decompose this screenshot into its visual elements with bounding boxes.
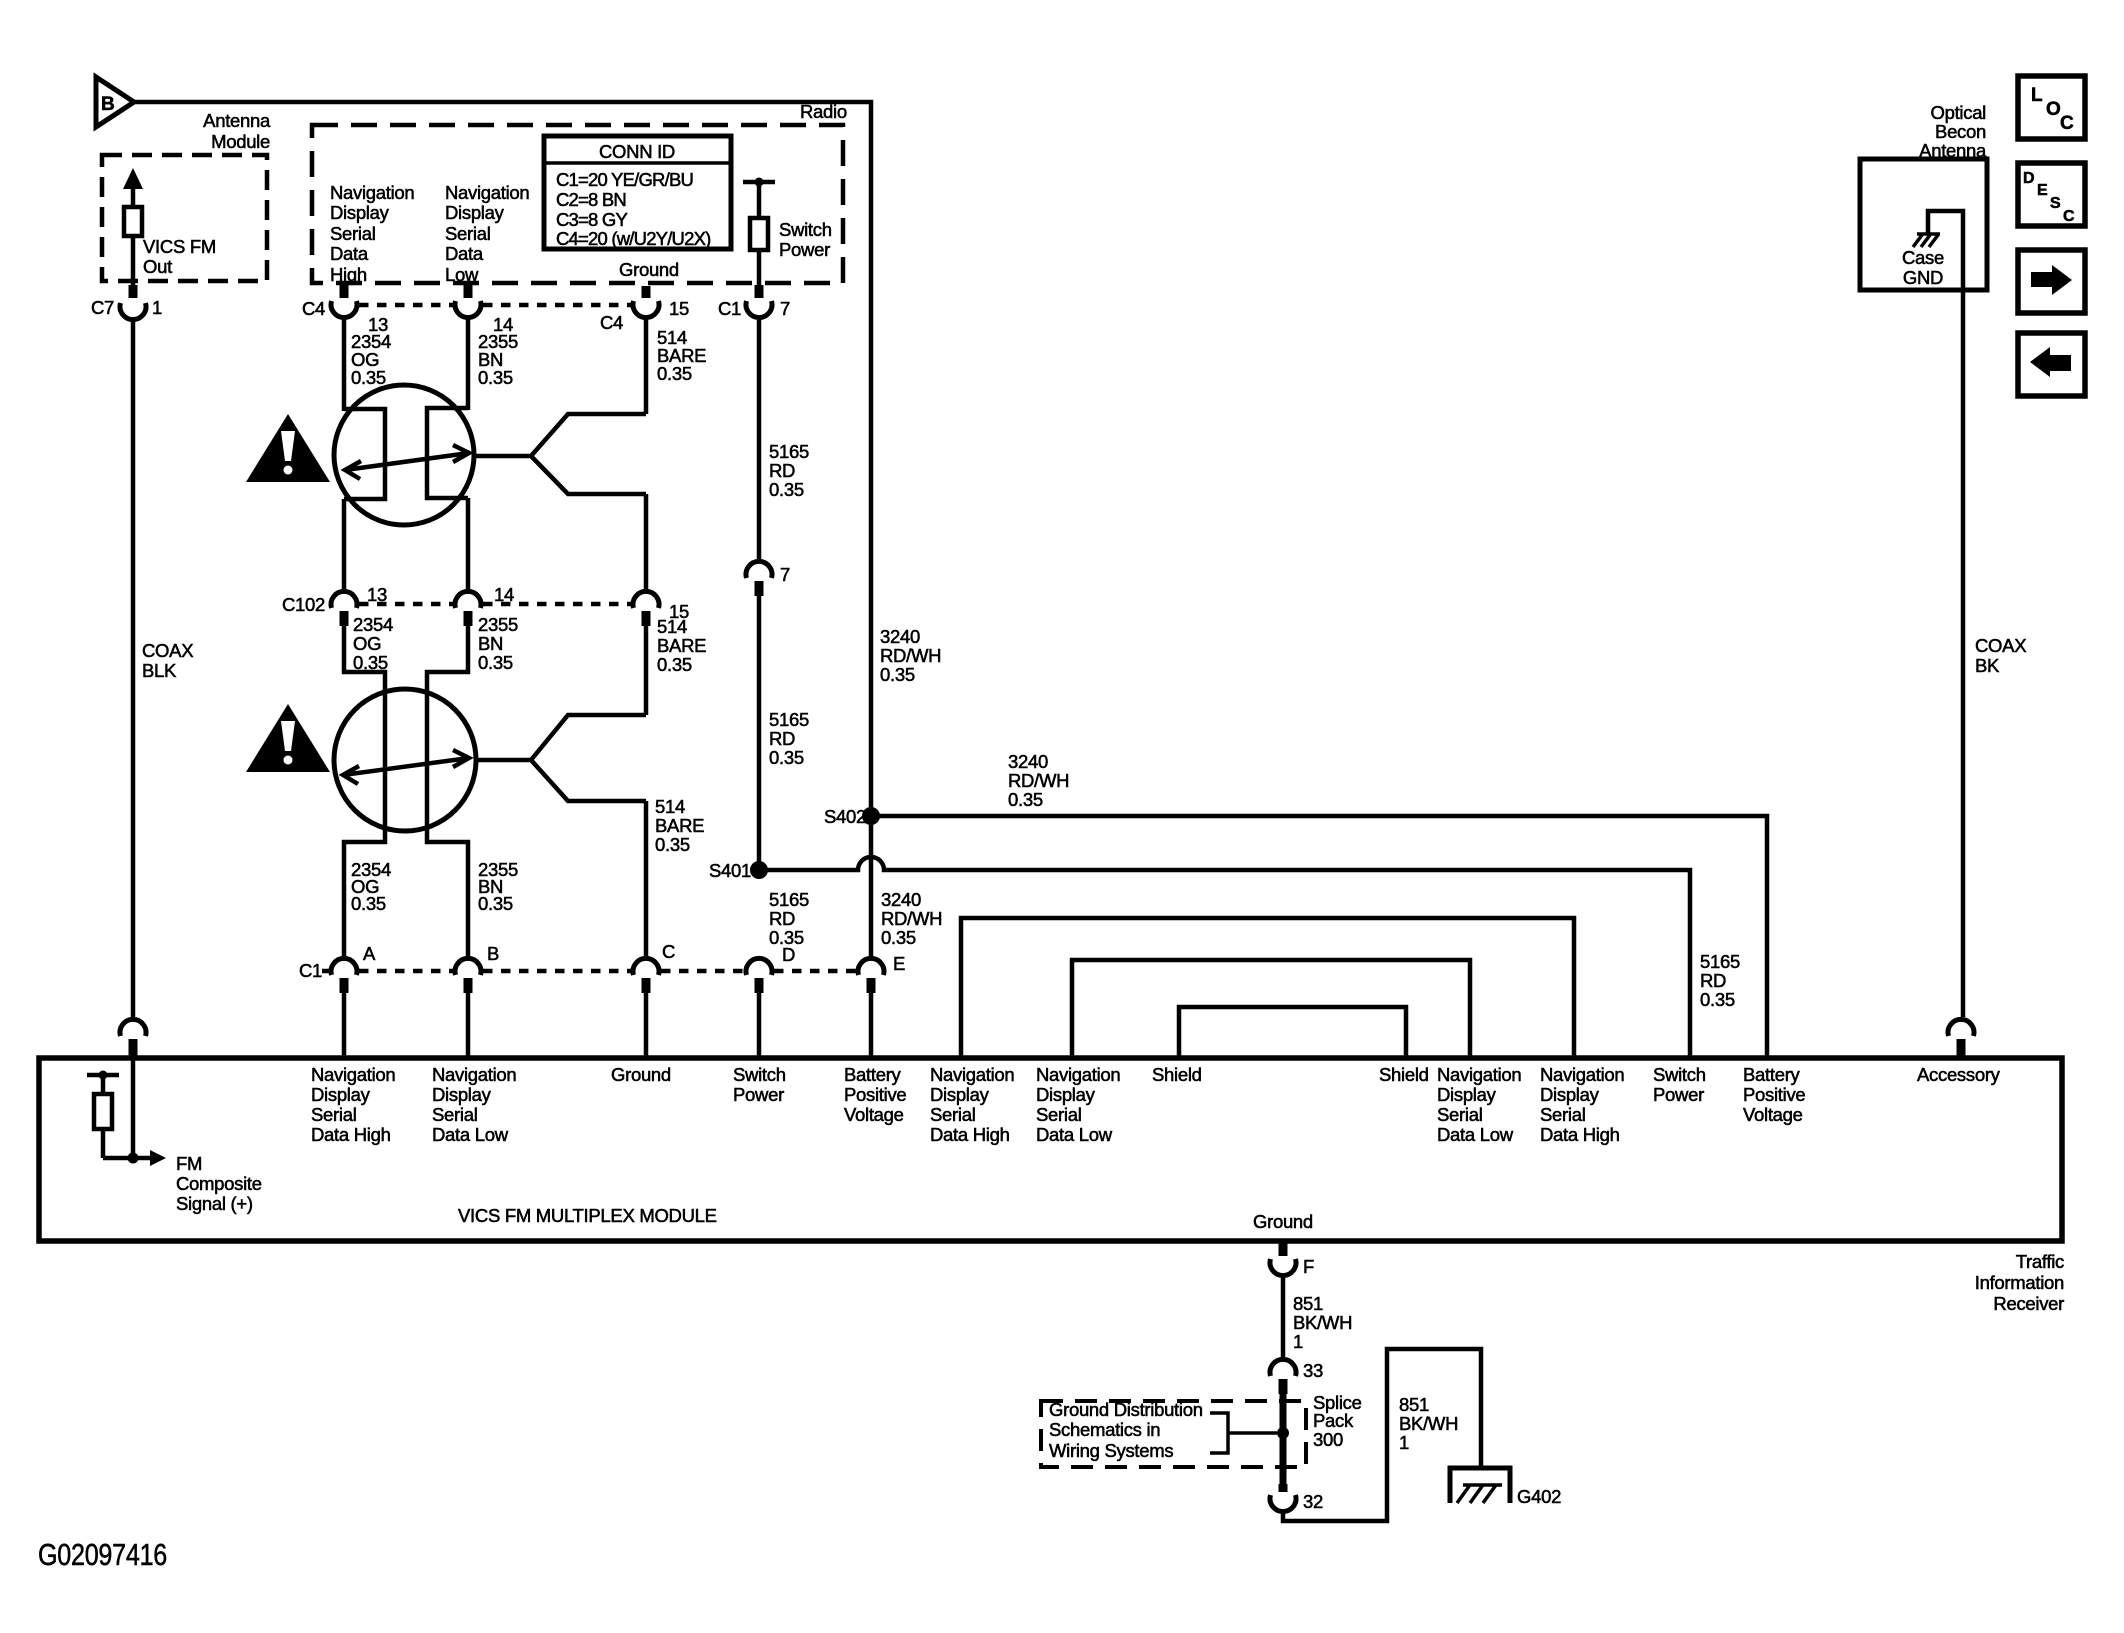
connector C1 pin C (633, 941, 675, 993)
resistor: VICS FM Out (124, 207, 142, 236)
wire: FM composite signal (103, 1129, 150, 1158)
svg-text:Low: Low (445, 264, 479, 285)
svg-text:Case: Case (1902, 247, 1944, 268)
svg-text:Wiring Systems: Wiring Systems (1049, 1440, 1173, 1461)
svg-text:Data Low: Data Low (1036, 1124, 1113, 1145)
svg-text:Data High: Data High (311, 1124, 391, 1145)
label 2354 OG 0.35 (radio side) (351, 331, 391, 388)
twisted pair 1 twist arrow (345, 445, 469, 479)
label 851 BK/WH 1 (lower) (1399, 1394, 1458, 1453)
svg-text:C1=20 YE/GR/BU: C1=20 YE/GR/BU (556, 169, 693, 190)
label module pin Shield (right) (1379, 1064, 1429, 1085)
button arrow left (2018, 333, 2085, 396)
svg-text:Display: Display (330, 202, 390, 223)
svg-text:F: F (1303, 1256, 1314, 1277)
svg-text:32: 32 (1303, 1491, 1323, 1512)
svg-text:FM: FM (176, 1153, 202, 1174)
svg-text:CONN ID: CONN ID (599, 141, 675, 162)
svg-text:1: 1 (1293, 1331, 1303, 1352)
label module pin Navigation Display Serial Data Low (mid) (1036, 1064, 1120, 1145)
svg-text:Traffic: Traffic (2016, 1251, 2064, 1272)
wire: 5165 from S401 to right switch pin (hops battery wire) (759, 857, 1690, 1058)
label G402 (1517, 1486, 1561, 1507)
wire: 514 C102 to fork 2 (644, 626, 649, 715)
svg-text:C2=8 BN: C2=8 BN (556, 189, 626, 210)
svg-text:S402: S402 (824, 806, 866, 827)
in-line connector 7 (746, 561, 790, 596)
bracket: ground distribution reference (1210, 1413, 1277, 1453)
label Case GND (1902, 247, 1944, 288)
svg-text:Data Low: Data Low (432, 1124, 509, 1145)
svg-text:5165: 5165 (769, 889, 809, 910)
svg-text:Becon: Becon (1935, 121, 1986, 142)
svg-text:3240: 3240 (1008, 751, 1048, 772)
svg-text:Positive: Positive (1743, 1084, 1805, 1105)
svg-text:Module: Module (211, 131, 270, 152)
svg-text:Navigation: Navigation (432, 1064, 516, 1085)
wire: 2355 twisted pair 1 to C102 (466, 498, 471, 591)
svg-text:0.35: 0.35 (881, 927, 916, 948)
label 2355 BN 0.35 (radio side) (478, 331, 518, 388)
svg-text:Serial: Serial (311, 1104, 357, 1125)
svg-text:0.35: 0.35 (657, 363, 692, 384)
svg-text:O: O (2046, 99, 2060, 120)
label module pin Shield (left) (1152, 1064, 1202, 1085)
svg-text:3240: 3240 (880, 626, 920, 647)
resistor: switch power (750, 218, 768, 250)
svg-text:Optical: Optical (1931, 102, 1986, 123)
connector row dashes C4 (359, 303, 631, 308)
svg-text:Battery: Battery (1743, 1064, 1801, 1085)
svg-text:E: E (2037, 182, 2048, 199)
svg-text:Switch: Switch (733, 1064, 786, 1085)
svg-text:RD: RD (769, 460, 795, 481)
wire: switch power feed (757, 182, 762, 218)
twisted pair 1 right loop (427, 408, 468, 498)
wire: 5165 inline connector to S401 (757, 596, 762, 870)
FM composite arrow (150, 1150, 166, 1166)
label Navigation Display Serial Data Low (radio) (445, 182, 529, 285)
splice S401 (709, 860, 768, 881)
VICS FM MULTIPLEX MODULE box (39, 1058, 2062, 1241)
svg-text:RD: RD (1700, 970, 1726, 991)
Radio dashed box (312, 125, 843, 283)
svg-text:Navigation: Navigation (1540, 1064, 1624, 1085)
connector B (circuit feed arrow) (96, 77, 134, 127)
button LOC (2018, 76, 2085, 139)
svg-text:5165: 5165 (769, 441, 809, 462)
svg-text:Schematics in: Schematics in (1049, 1419, 1160, 1440)
svg-text:C: C (662, 941, 675, 962)
svg-text:Voltage: Voltage (1743, 1104, 1803, 1125)
Ground Distribution dashed box (1041, 1401, 1306, 1467)
svg-text:0.35: 0.35 (880, 664, 915, 685)
label module pin Battery Positive Voltage (right) (1743, 1064, 1805, 1125)
wire: 514 from pin 15 to fork 1 (644, 318, 649, 414)
label pin 14 (493, 314, 513, 335)
label 5165 RD 0.35 (right) (1700, 951, 1740, 1010)
wire: 514 fork 2 to pin C (644, 801, 649, 958)
wire: VICS FM Out to connector C7 (131, 236, 136, 291)
twisted pair 1 left loop (344, 409, 385, 499)
svg-text:BARE: BARE (657, 635, 706, 656)
svg-text:GND: GND (1903, 267, 1943, 288)
twisted pair symbol 1 (circle) (334, 385, 474, 525)
svg-text:0.35: 0.35 (478, 652, 513, 673)
svg-text:Serial: Serial (1437, 1104, 1483, 1125)
svg-text:Data Low: Data Low (1437, 1124, 1514, 1145)
wire: 2354 twisted pair 1 to C102 (342, 499, 347, 591)
label module pin Ground (bottom) (1253, 1211, 1313, 1232)
switch power feed T-bar (743, 178, 775, 187)
label 2354 OG 0.35 (module side) (351, 859, 391, 914)
svg-text:7: 7 (780, 564, 790, 585)
connector C102 pin 15 (633, 591, 689, 626)
wire: splice pack bus (1280, 1394, 1287, 1484)
svg-text:Navigation: Navigation (1437, 1064, 1521, 1085)
label module pin Navigation Display Serial Data High (left) (311, 1064, 395, 1145)
svg-text:E: E (893, 953, 905, 974)
label 514 BARE 0.35 (module side) (655, 796, 704, 855)
svg-text:Shield: Shield (1152, 1064, 1202, 1085)
label G02097416 (38, 1537, 167, 1572)
svg-text:VICS FM MULTIPLEX MODULE: VICS FM MULTIPLEX MODULE (458, 1205, 717, 1226)
svg-text:2355: 2355 (478, 614, 518, 635)
wire: 2354 C102 to twisted pair 2 (344, 626, 385, 958)
warning triangle 1 (246, 414, 330, 482)
antenna T-bar (FM composite) (87, 1071, 119, 1095)
svg-text:Display: Display (1437, 1084, 1497, 1105)
wire: shield drain fork 1 (473, 414, 646, 494)
svg-text:Serial: Serial (330, 223, 376, 244)
svg-text:0.35: 0.35 (1008, 789, 1043, 810)
svg-text:Positive: Positive (844, 1084, 906, 1105)
svg-text:0.35: 0.35 (657, 654, 692, 675)
svg-text:C4=20 (w/U2Y/U2X): C4=20 (w/U2Y/U2X) (556, 228, 711, 249)
CONN ID table (544, 136, 731, 249)
label Radio (800, 101, 847, 122)
wire: 851 from splice 32 to G402 (1283, 1349, 1481, 1521)
svg-text:RD/WH: RD/WH (881, 908, 942, 929)
svg-text:Ground Distribution: Ground Distribution (1049, 1399, 1203, 1420)
svg-text:5165: 5165 (1700, 951, 1740, 972)
connector C7 pin 1 (91, 285, 162, 320)
wire: switch power to C1 pin 7 (757, 250, 762, 288)
svg-text:Data High: Data High (930, 1124, 1010, 1145)
svg-text:Ground: Ground (1253, 1211, 1313, 1232)
label 5165 RD 0.35 (middle) (769, 709, 809, 768)
label module pin Accessory (1917, 1064, 2001, 1085)
svg-text:Serial: Serial (1540, 1104, 1586, 1125)
svg-text:Data: Data (330, 243, 369, 264)
label VICS FM Out (143, 236, 216, 277)
label Optical Becon Antenna (1919, 102, 1987, 161)
wire: case ground jumper (1928, 211, 1963, 1017)
connector C4 pin 13 (331, 285, 357, 318)
Optical Becon Antenna box (Case GND) (1860, 159, 1987, 290)
svg-text:514: 514 (655, 796, 685, 817)
label VICS FM MULTIPLEX MODULE (458, 1205, 717, 1226)
svg-text:Navigation: Navigation (311, 1064, 395, 1085)
wire: shield jumper loop inner (Shield) (1179, 1007, 1406, 1058)
svg-text:BK/WH: BK/WH (1293, 1312, 1352, 1333)
svg-text:514: 514 (657, 616, 687, 637)
svg-text:Display: Display (930, 1084, 990, 1105)
svg-text:Data High: Data High (1540, 1124, 1620, 1145)
connector C4 pin 15 (633, 286, 659, 318)
svg-text:Ground: Ground (619, 259, 679, 280)
connector 33 (splice pack) (1270, 1359, 1323, 1394)
svg-text:G402: G402 (1517, 1486, 1561, 1507)
button arrow right (2018, 250, 2085, 313)
svg-text:G02097416: G02097416 (38, 1537, 167, 1572)
svg-text:Accessory: Accessory (1917, 1064, 2001, 1085)
svg-text:C4: C4 (302, 298, 325, 319)
connector C1 pin D (746, 944, 795, 993)
wire: coax (antenna module to VICS module) (131, 320, 136, 1017)
svg-text:0.35: 0.35 (351, 893, 386, 914)
svg-text:C3=8 GY: C3=8 GY (556, 209, 627, 230)
svg-text:COAX: COAX (1975, 635, 2026, 656)
svg-text:0.35: 0.35 (655, 834, 690, 855)
junction: splice pack tap (1277, 1427, 1289, 1439)
svg-text:B: B (101, 94, 114, 115)
svg-text:C1: C1 (718, 298, 741, 319)
connector row dashes C1 bottom (322, 969, 856, 974)
svg-text:Serial: Serial (1036, 1104, 1082, 1125)
svg-text:RD: RD (769, 728, 795, 749)
svg-text:Information: Information (1975, 1272, 2064, 1293)
label Splice Pack 300 (1313, 1392, 1362, 1450)
label Traffic Information Receiver (1975, 1251, 2064, 1314)
svg-text:851: 851 (1399, 1394, 1429, 1415)
svg-text:851: 851 (1293, 1293, 1323, 1314)
svg-text:Pack: Pack (1313, 1410, 1354, 1431)
label Ground Distribution Schematics in Wiring Systems (1049, 1399, 1203, 1461)
label pin 13 (368, 314, 388, 335)
svg-text:High: High (330, 264, 367, 285)
svg-text:RD/WH: RD/WH (880, 645, 941, 666)
svg-text:Receiver: Receiver (1993, 1293, 2064, 1314)
wire: shield drain fork 2 (476, 715, 646, 801)
svg-text:0.35: 0.35 (769, 747, 804, 768)
Antenna Module box (102, 155, 267, 281)
junction dot FM composite (128, 1153, 139, 1164)
svg-text:A: A (363, 943, 376, 964)
label Antenna Module (203, 110, 271, 152)
svg-text:C1: C1 (299, 960, 322, 981)
svg-text:Power: Power (779, 239, 830, 260)
label COAX BLK (142, 640, 193, 681)
svg-text:Composite: Composite (176, 1173, 262, 1194)
svg-text:15: 15 (669, 298, 689, 319)
label 5165 RD 0.35 (upper) (769, 441, 809, 500)
label Switch Power (radio) (779, 219, 832, 260)
ground G402 symbol (1450, 1468, 1510, 1503)
wire: pin E to module (869, 993, 874, 1058)
svg-text:7: 7 (780, 298, 790, 319)
svg-text:Navigation: Navigation (930, 1064, 1014, 1085)
svg-text:C4: C4 (600, 312, 623, 333)
label 2355 BN 0.35 (module side) (478, 859, 518, 914)
warning triangle 2 (246, 704, 330, 772)
wire: 3240 battery feed (triangle B to S402) (134, 102, 871, 810)
svg-text:D: D (782, 944, 795, 965)
resistor: FM composite load (94, 1094, 112, 1129)
label 514 BARE 0.35 (mid) (657, 616, 706, 675)
label module pin Switch Power (right) (1653, 1064, 1706, 1105)
svg-text:BK/WH: BK/WH (1399, 1413, 1458, 1434)
splice S402 (824, 806, 880, 827)
connector C1 pin 7 (718, 285, 790, 319)
label FM Composite Signal (+) (176, 1153, 262, 1214)
svg-text:Display: Display (1540, 1084, 1600, 1105)
svg-text:Serial: Serial (432, 1104, 478, 1125)
wire: pin B to module (466, 993, 471, 1058)
svg-text:0.35: 0.35 (478, 893, 513, 914)
svg-text:OG: OG (353, 633, 381, 654)
svg-text:BLK: BLK (142, 660, 177, 681)
connector C1 pin E (858, 953, 905, 993)
label module pin Navigation Display Serial Data Low (left) (432, 1064, 516, 1145)
wire: 3240 from S402 to right battery pin (871, 816, 1767, 1058)
wire: 514 fork 1 to C102 (644, 494, 649, 591)
label module pin Navigation Display Serial Data Low (right) (1437, 1064, 1521, 1145)
label 514 BARE 0.35 (radio side) (657, 327, 706, 384)
connector C102 pin 13 (282, 584, 387, 626)
wire: shield jumper loop outer (Data High) (961, 918, 1574, 1058)
svg-text:Display: Display (311, 1084, 371, 1105)
svg-text:Data: Data (445, 243, 484, 264)
svg-text:Display: Display (1036, 1084, 1096, 1105)
svg-text:33: 33 (1303, 1360, 1323, 1381)
connector C1 pin B (455, 943, 499, 993)
label 5165 RD 0.35 (below S401) (769, 889, 809, 948)
svg-text:VICS FM: VICS FM (143, 236, 216, 257)
label 851 BK/WH 1 (upper) (1293, 1293, 1352, 1352)
svg-text:Display: Display (432, 1084, 492, 1105)
connector: accessory coax entry at module (1948, 1019, 1974, 1058)
svg-text:RD: RD (769, 908, 795, 929)
wire: 2355 C102 to twisted pair 2 (427, 626, 468, 958)
svg-text:3240: 3240 (881, 889, 921, 910)
svg-text:C7: C7 (91, 297, 114, 318)
label module pin Switch Power (left) (733, 1064, 786, 1105)
svg-text:1: 1 (1399, 1432, 1409, 1453)
svg-text:Voltage: Voltage (844, 1104, 904, 1125)
svg-text:Navigation: Navigation (1036, 1064, 1120, 1085)
wire: 5165 C1-7 to inline connector (757, 320, 762, 561)
twisted pair 2 twist arrow (343, 750, 469, 784)
label 3240 RD/WH 0.35 (upper) (880, 626, 941, 685)
svg-text:COAX: COAX (142, 640, 193, 661)
label module pin Battery Positive Voltage (left) (844, 1064, 906, 1125)
label pin 15 (669, 298, 689, 319)
wire: shield jumper loop middle (Data Low) (1072, 960, 1470, 1058)
svg-text:Serial: Serial (930, 1104, 976, 1125)
svg-text:Antenna: Antenna (203, 110, 271, 131)
svg-text:S: S (2050, 195, 2061, 212)
svg-text:BK: BK (1975, 655, 2000, 676)
svg-text:0.35: 0.35 (769, 479, 804, 500)
svg-text:Radio: Radio (800, 101, 847, 122)
svg-text:1: 1 (152, 297, 162, 318)
svg-text:S401: S401 (709, 860, 751, 881)
wire: battery S402 to pin E (through hop) (869, 816, 874, 958)
svg-text:L: L (2031, 85, 2043, 106)
antenna symbol (VICS FM Out arrow) (123, 168, 143, 207)
svg-text:0.35: 0.35 (478, 367, 513, 388)
label 3240 RD/WH 0.35 (S402 branch) (1008, 751, 1069, 810)
svg-text:BARE: BARE (655, 815, 704, 836)
svg-text:2354: 2354 (353, 614, 393, 635)
label C4 (pin 15) (600, 312, 623, 333)
wire: pin C to module (644, 993, 649, 1058)
connector 32 (splice pack) (1270, 1484, 1323, 1512)
wire: coax inside module (131, 1058, 136, 1158)
label 2355 BN 0.35 (mid) (478, 614, 518, 673)
label module pin Navigation Display Serial Data High (mid) (930, 1064, 1014, 1145)
connector row dashes C102 (359, 602, 631, 607)
svg-text:Switch: Switch (1653, 1064, 1706, 1085)
connector C1 pin A (299, 943, 376, 993)
wire: 2355 into twisted pair 1 (466, 318, 471, 410)
svg-text:RD/WH: RD/WH (1008, 770, 1069, 791)
svg-text:Display: Display (445, 202, 505, 223)
svg-text:Battery: Battery (844, 1064, 902, 1085)
label 2354 OG 0.35 (mid) (353, 614, 393, 673)
svg-text:Navigation: Navigation (330, 182, 414, 203)
label 3240 RD/WH 0.35 (below S401) (881, 889, 942, 948)
svg-text:300: 300 (1313, 1429, 1343, 1450)
svg-text:0.35: 0.35 (351, 367, 386, 388)
label module pin Navigation Display Serial Data High (right) (1540, 1064, 1624, 1145)
svg-text:Out: Out (143, 256, 172, 277)
connector F (module ground) (1270, 1243, 1314, 1277)
svg-text:Power: Power (1653, 1084, 1704, 1105)
svg-text:Switch: Switch (779, 219, 832, 240)
svg-text:Serial: Serial (445, 223, 491, 244)
svg-text:C: C (2060, 113, 2074, 134)
label Ground (radio) (619, 259, 679, 280)
svg-text:Navigation: Navigation (445, 182, 529, 203)
twisted pair symbol 2 (circle) (334, 689, 476, 831)
svg-text:5165: 5165 (769, 709, 809, 730)
wire: 851 ground (F to splice pack) (1281, 1276, 1286, 1358)
button DESC (2018, 163, 2085, 226)
svg-text:C: C (2063, 208, 2075, 225)
svg-text:Power: Power (733, 1084, 784, 1105)
wire: 2354 into twisted pair 1 (342, 318, 347, 411)
svg-text:0.35: 0.35 (1700, 989, 1735, 1010)
svg-text:Signal (+): Signal (+) (176, 1193, 253, 1214)
svg-text:B: B (487, 943, 499, 964)
svg-text:Shield: Shield (1379, 1064, 1429, 1085)
connector C102 pin 14 (455, 584, 514, 626)
label module pin Ground (611, 1064, 671, 1085)
label Navigation Display Serial Data High (radio) (330, 182, 414, 285)
svg-text:BN: BN (478, 633, 503, 654)
svg-text:D: D (2023, 170, 2034, 187)
case ground symbol (1913, 234, 1940, 247)
svg-text:Ground: Ground (611, 1064, 671, 1085)
wire: pin A to module (342, 993, 347, 1058)
wire: pin D to module (757, 993, 762, 1058)
label C4 (302, 298, 325, 319)
connector: coax entry at VICS module (120, 1019, 146, 1058)
label COAX BK (1975, 635, 2026, 676)
svg-text:C102: C102 (282, 594, 325, 615)
